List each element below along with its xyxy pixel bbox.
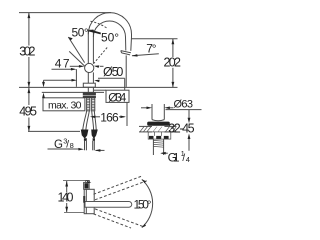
- svg-text:8: 8: [70, 141, 74, 150]
- svg-text:Ø63: Ø63: [174, 99, 194, 111]
- svg-text:495: 495: [19, 105, 37, 119]
- svg-text:47: 47: [55, 57, 70, 71]
- svg-text:150°: 150°: [134, 198, 152, 212]
- svg-text:G: G: [54, 139, 63, 151]
- svg-text:32-45: 32-45: [168, 122, 194, 136]
- svg-text:50°: 50°: [72, 25, 89, 39]
- svg-text:7°: 7°: [146, 42, 156, 56]
- svg-text:202: 202: [164, 56, 181, 70]
- svg-text:50°: 50°: [101, 31, 119, 45]
- svg-text:Ø34: Ø34: [108, 91, 126, 105]
- svg-text:302: 302: [19, 44, 35, 58]
- svg-text:G1: G1: [168, 150, 180, 164]
- svg-text:140: 140: [58, 191, 74, 205]
- svg-text:max. 30: max. 30: [48, 100, 82, 112]
- svg-text:4: 4: [186, 155, 190, 164]
- svg-text:Ø 50: Ø 50: [103, 65, 123, 79]
- svg-text:166: 166: [100, 111, 119, 125]
